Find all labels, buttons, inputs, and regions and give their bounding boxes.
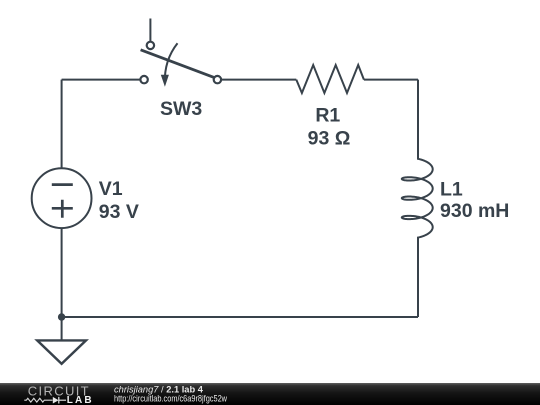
svg-text:V1: V1 bbox=[99, 178, 123, 200]
svg-text:93 Ω: 93 Ω bbox=[308, 128, 351, 150]
svg-text:LAB: LAB bbox=[67, 395, 94, 405]
ground bbox=[37, 317, 86, 364]
voltage source V1 bbox=[32, 168, 92, 228]
svg-text:L1: L1 bbox=[440, 178, 463, 200]
logo diode bbox=[53, 397, 66, 404]
wire top left bbox=[62, 79, 141, 81]
label L1 value bbox=[440, 178, 509, 221]
wire right rail upper bbox=[417, 80, 419, 157]
wire switch to resistor bbox=[221, 79, 296, 81]
footer bar bbox=[0, 383, 540, 405]
wire left rail lower bbox=[61, 228, 63, 317]
switch SW3 bbox=[140, 19, 221, 87]
svg-text:930 mH: 930 mH bbox=[440, 200, 509, 222]
node junction dot bbox=[58, 313, 65, 320]
logo resistor squiggle bbox=[24, 398, 52, 402]
resistor R1 bbox=[296, 65, 364, 93]
wire resistor to corner bbox=[364, 79, 418, 81]
wire left rail upper bbox=[61, 80, 63, 169]
svg-text:http://circuitlab.com/c6a9r8jf: http://circuitlab.com/c6a9r8jfgc52w bbox=[114, 394, 227, 404]
svg-text:SW3: SW3 bbox=[160, 98, 202, 120]
label V1 value bbox=[99, 178, 139, 223]
wire right rail lower bbox=[417, 238, 419, 317]
inductor L1 bbox=[402, 156, 433, 318]
label R1 value bbox=[308, 104, 351, 149]
svg-text:93 V: 93 V bbox=[99, 201, 139, 223]
wire bottom bbox=[62, 316, 418, 318]
svg-text:R1: R1 bbox=[315, 104, 340, 126]
